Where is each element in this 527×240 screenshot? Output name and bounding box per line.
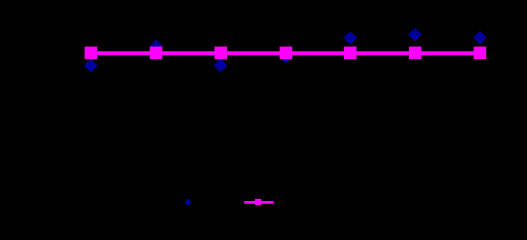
square S7: [474, 47, 487, 60]
diamond D6: [408, 28, 422, 42]
square S1: [85, 47, 98, 60]
square S2: [150, 47, 163, 60]
square S5: [344, 47, 357, 60]
line: [91, 51, 480, 55]
square S4: [280, 47, 293, 60]
legend diamond: [185, 199, 192, 206]
diamond D5: [344, 31, 358, 45]
diamond D2: [149, 40, 163, 54]
square S6: [409, 47, 422, 60]
legend line: [244, 201, 274, 204]
square S3: [215, 47, 228, 60]
diamond D3: [214, 59, 228, 73]
diamond D7: [473, 31, 487, 45]
diamond D4: [279, 50, 293, 64]
diamond D1: [84, 59, 98, 73]
legend square: [255, 199, 261, 205]
